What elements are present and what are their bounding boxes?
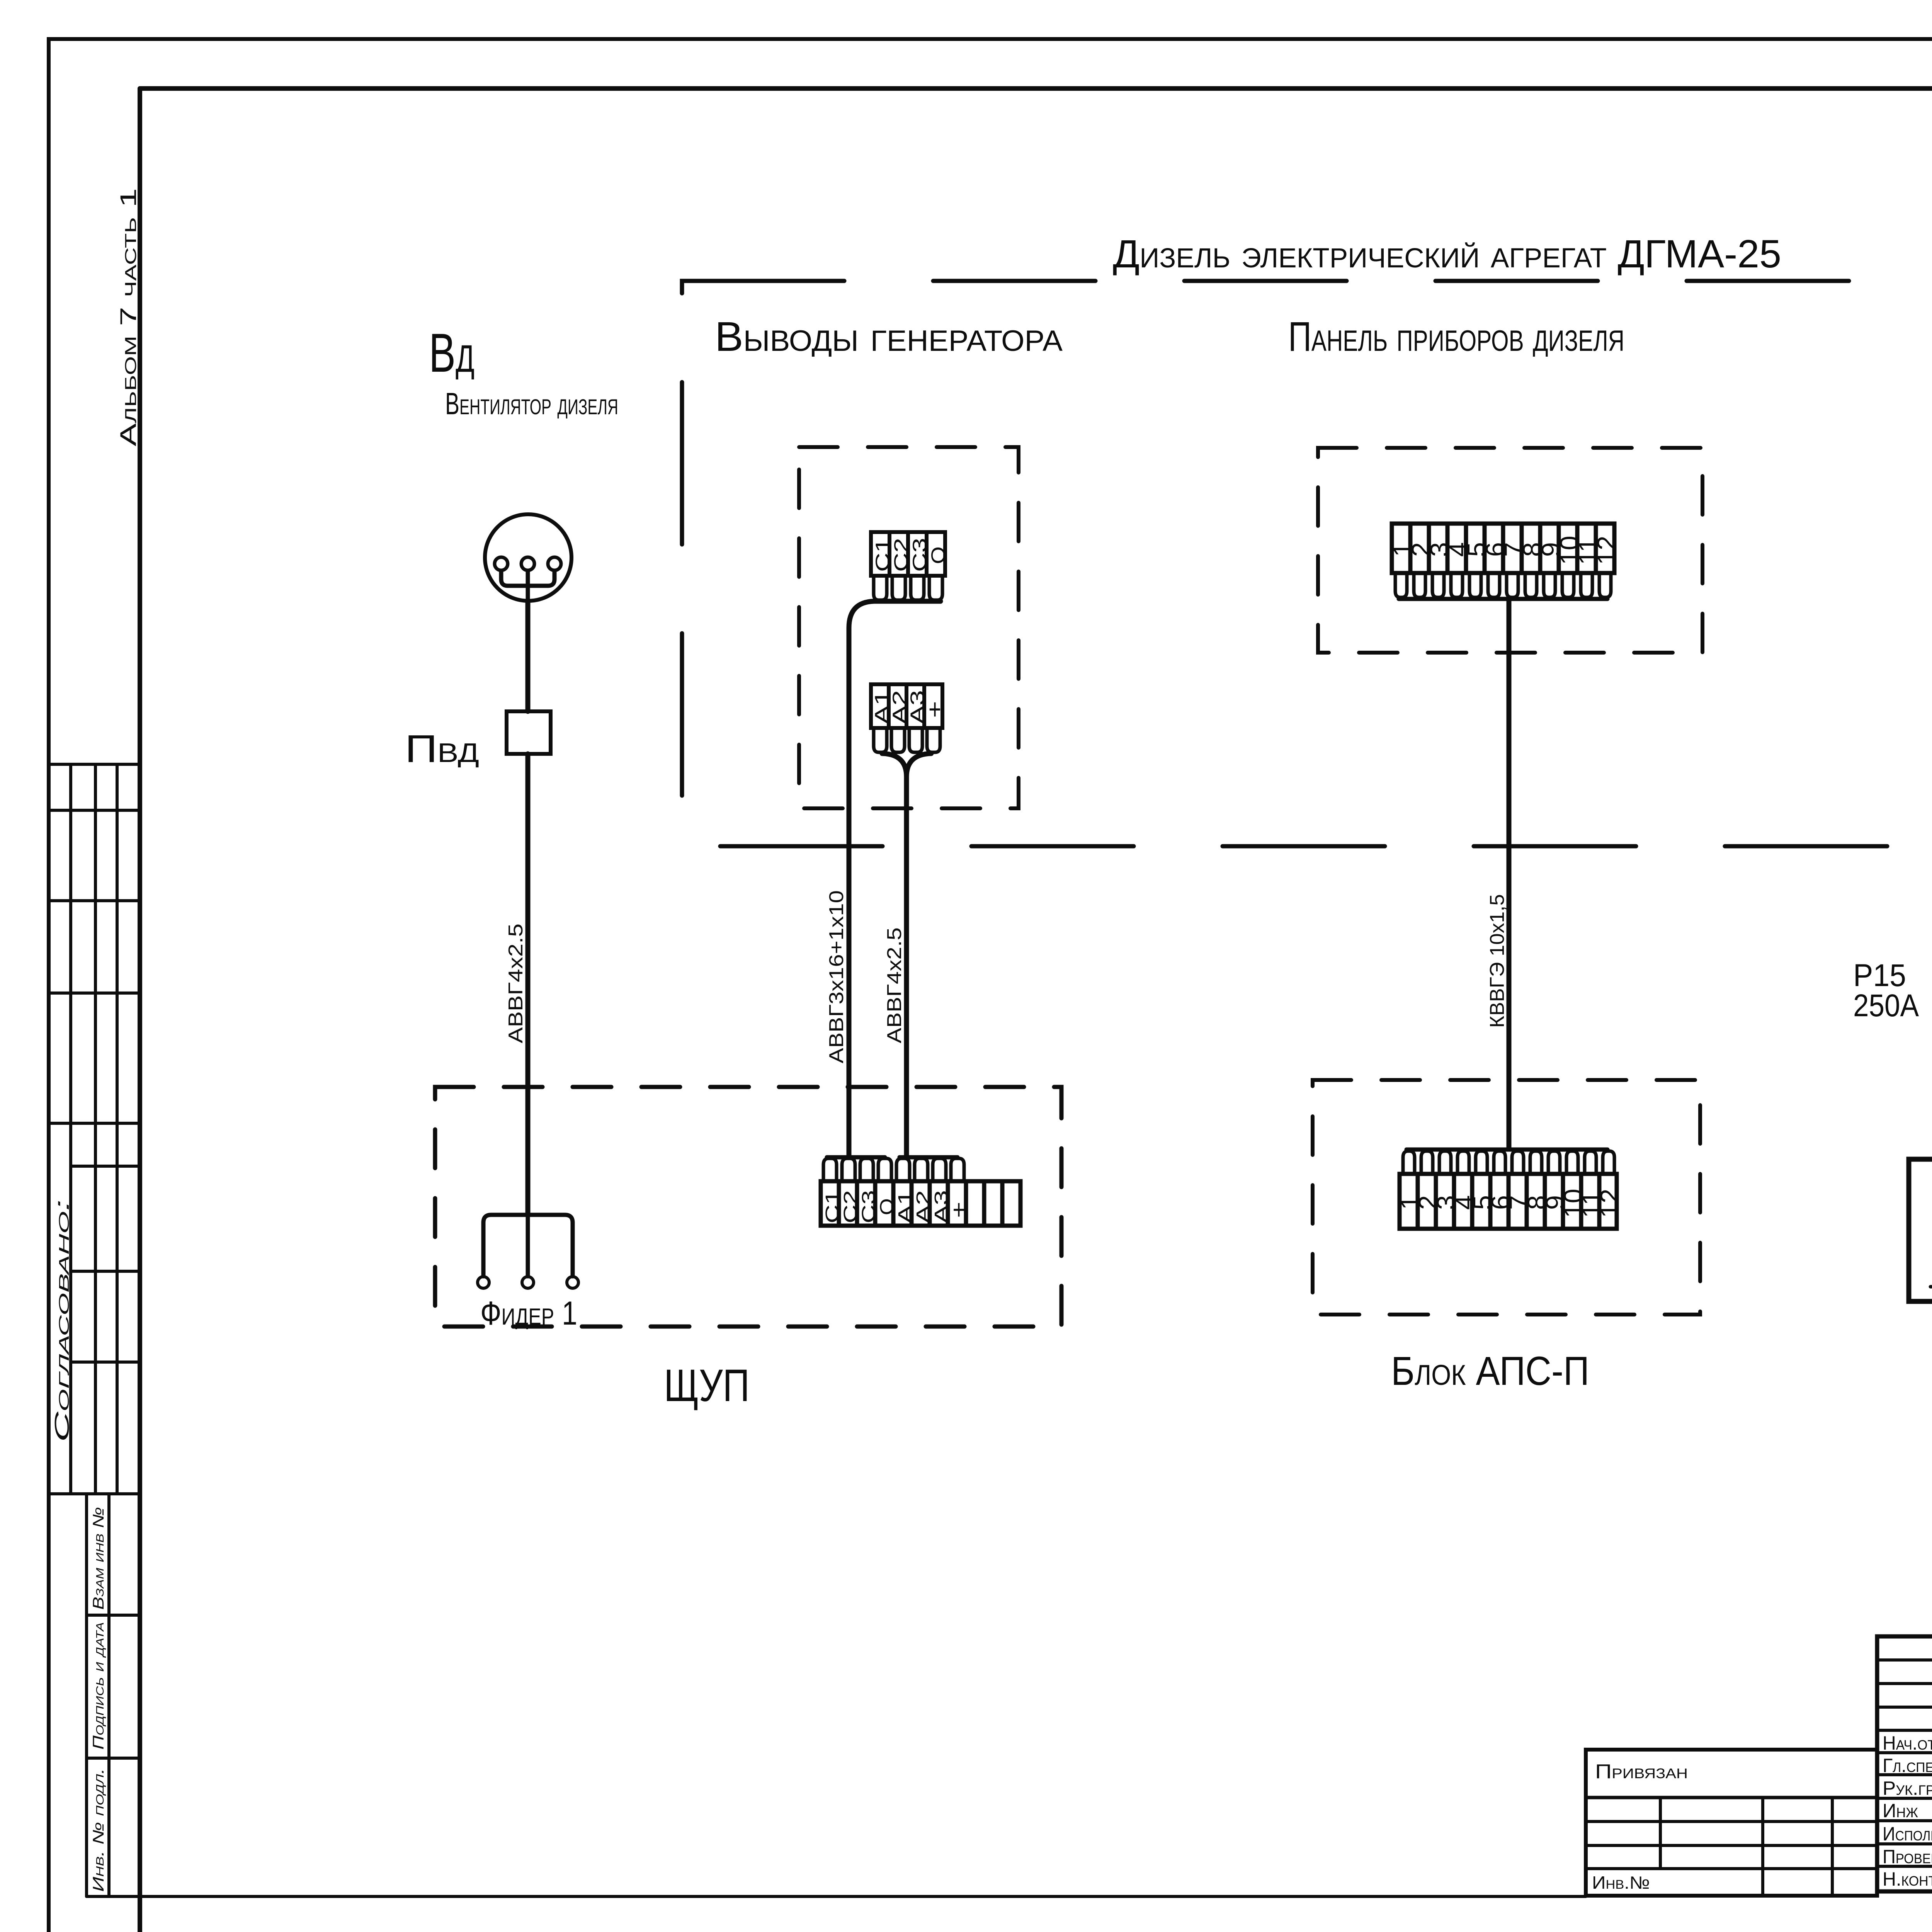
wire ПВД to feeder [526,754,531,1216]
svg-text:КВВГЭ 10х1,5: КВВГЭ 10х1,5 [1486,894,1509,1028]
generator block lower tabs [874,728,940,752]
left margin attachment table [49,764,140,1896]
battery GB1 12В [1930,1278,1932,1326]
svg-text:Нач.отд.: Нач.отд. [1883,1732,1932,1754]
svg-text:Инв.№: Инв.№ [1592,1872,1650,1893]
panel terminal block 1-12 [1392,524,1614,573]
svg-text:Гл.спец: Гл.спец [1883,1755,1932,1776]
attachment block Привязан [1586,1750,1877,1896]
generator block upper tabs [874,576,942,600]
svg-text:+: + [947,1202,970,1218]
dashed box panel of devices [1318,448,1702,653]
svg-text:С3: С3 [859,1190,879,1223]
svg-text:12: 12 [1592,536,1621,565]
svg-text:Инв. № подл.: Инв. № подл. [90,1768,107,1892]
ЩУП terminal strip [821,1181,1020,1226]
svg-text:Согласовано:: Согласовано: [51,1199,73,1442]
svg-text:С2: С2 [840,1190,861,1223]
dashed enclosure ДГМА-25 unit [682,281,1932,846]
label Взам. инв. № (vertical) [90,1507,107,1610]
svg-text:С1: С1 [822,1190,843,1223]
svg-text:Рук.гр.: Рук.гр. [1883,1777,1932,1799]
svg-text:АВВГ4х2.5: АВВГ4х2.5 [883,927,906,1043]
stamp role labels [1883,1732,1932,1890]
panel pin numbers 1-12 [1388,536,1621,565]
svg-text:Подпись и дата: Подпись и дата [90,1622,107,1750]
label Подпись и дата (vertical) [90,1622,107,1750]
label Альбом 7 часть 1 (vertical) [116,188,141,446]
svg-text:Взам инв №: Взам инв № [90,1507,107,1610]
svg-text:Панель приборов дизеля: Панель приборов дизеля [1288,313,1624,360]
panel block tabs [1395,573,1611,597]
connector line to title block [87,1895,1586,1898]
title block stamp [1877,1636,1932,1891]
svg-text:О: О [877,1198,897,1215]
svg-text:Выводы генератора: Выводы генератора [715,313,1063,360]
svg-text:Н.контр: Н.контр [1883,1868,1932,1890]
wire switch 1 to battery 1 [1909,1002,1932,1301]
label Инв. № подл. (vertical) [90,1768,107,1892]
wire bundle АВВГ4х2.5 (generator) [882,753,906,1156]
svg-text:+: + [922,701,947,718]
terminal block А1 А2 А3 + [871,684,942,728]
label Согласовано (vertical) [51,1199,73,1442]
АПС-П terminal block 1-12 [1400,1174,1617,1229]
АПС-П pin numbers 1-12 [1395,1189,1624,1218]
label Р15 250А [1853,958,1919,1023]
svg-text:Исполн.: Исполн. [1883,1823,1932,1845]
bundle2 fan-in [900,1155,957,1160]
wire bundle АВВГ3х16+1х10 [849,601,940,1156]
wire ВД to ПВД [526,600,531,711]
ЩУП strip tabs bundle 1 [823,1158,891,1181]
feeder trident Фидер 1 [478,1215,578,1288]
АПС-П fan-in [1406,1148,1607,1152]
svg-text:А1: А1 [895,1190,915,1223]
svg-text:250А: 250А [1853,988,1919,1023]
terminal block С1 С2 С3 О [871,532,945,576]
title Дизель электрический агрегат ДГМА-25 [1113,232,1781,276]
svg-text:Альбом 7 часть 1: Альбом 7 часть 1 [116,188,141,446]
svg-text:Вентилятор дизеля: Вентилятор дизеля [445,386,618,421]
svg-text:Привязан: Привязан [1595,1760,1688,1783]
panel fan-in [1399,597,1607,601]
svg-text:Вд: Вд [429,322,474,384]
svg-text:Инж: Инж [1883,1800,1918,1821]
bundle1 fan-in [827,1155,885,1160]
fan motor ВД [485,514,571,601]
svg-text:О: О [927,546,949,564]
cable КВВГЭ 10х1.5 wire [1507,600,1512,1148]
АПС-П block tabs [1403,1151,1614,1174]
dashed box блок АПС-П [1313,1080,1700,1315]
fuse ПВД [507,711,551,754]
ЩУП strip tabs bundle 2 [896,1158,964,1181]
ЩУП pin labels С1 С2 С3 О А1 А2 А3 + [822,1190,970,1223]
svg-text:Дизель электрический агрегат Д: Дизель электрический агрегат ДГМА-25 [1113,232,1781,276]
svg-text:ЩУП: ЩУП [664,1360,750,1411]
dashed box ЩУП [435,1087,1061,1327]
svg-text:12: 12 [1595,1189,1624,1218]
svg-text:А2: А2 [913,1190,934,1223]
svg-text:Блок АПС-П: Блок АПС-П [1391,1349,1589,1394]
svg-text:АВВГ4х2.5: АВВГ4х2.5 [505,923,527,1043]
dashed box generator terminals [799,447,1019,808]
svg-text:АВВГ3х16+1х10: АВВГ3х16+1х10 [825,890,848,1063]
svg-text:Провер.: Провер. [1883,1846,1932,1867]
svg-text:Пвд: Пвд [405,727,479,770]
